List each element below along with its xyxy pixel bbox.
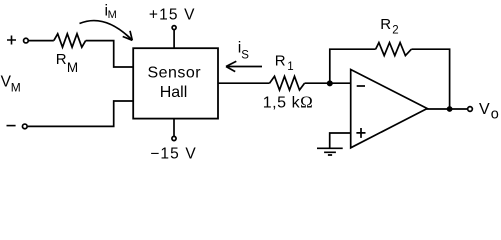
svg-text:R: R xyxy=(380,16,391,33)
svg-text:V: V xyxy=(479,101,490,118)
svg-text:1,5 kΩ: 1,5 kΩ xyxy=(263,93,314,112)
svg-text:Sensor: Sensor xyxy=(147,65,201,82)
svg-text:M: M xyxy=(67,60,78,75)
svg-text:M: M xyxy=(108,9,117,21)
svg-text:R: R xyxy=(56,51,67,68)
svg-text:+15 V: +15 V xyxy=(149,6,196,23)
svg-text:1: 1 xyxy=(287,61,293,73)
svg-text:S: S xyxy=(241,50,249,62)
svg-text:M: M xyxy=(11,81,21,95)
svg-text:−15 V: −15 V xyxy=(150,145,197,162)
svg-text:R: R xyxy=(275,52,286,69)
svg-text:Hall: Hall xyxy=(160,84,188,101)
svg-text:o: o xyxy=(491,107,499,123)
svg-text:2: 2 xyxy=(392,25,398,37)
